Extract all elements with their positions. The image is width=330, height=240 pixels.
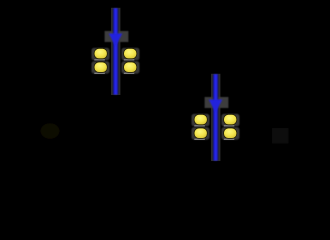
electron pad bottom-left: [92, 61, 110, 73]
wire (current direction down): [113, 8, 118, 94]
wire halo: [211, 74, 220, 161]
electron pad top-left: [192, 114, 210, 126]
electron bottom-left: [194, 128, 207, 138]
electron top-left: [194, 114, 207, 124]
electron bottom-right: [124, 62, 137, 72]
electron bottom-left: [94, 62, 107, 72]
arrowhead: [109, 34, 123, 47]
electron top-right: [224, 114, 237, 124]
electron bottom-right: [224, 128, 237, 138]
faint ghost square right-bottom: [272, 128, 289, 144]
electron pad bottom-right: [222, 127, 240, 139]
pad highlight lines: [94, 59, 134, 74]
arrowhead: [209, 100, 223, 113]
faint ghost blob left-bottom: [41, 123, 60, 139]
electron pad bottom-right: [122, 61, 140, 73]
arrowhead pad: [105, 31, 129, 42]
electron pad top-left: [92, 48, 110, 60]
electron pad bottom-left: [192, 127, 210, 139]
electron top-left: [94, 48, 107, 58]
diagram 1 : wire with current arrow and four electrons: [92, 8, 140, 95]
electron pad top-right: [222, 114, 240, 126]
wire (current direction down): [213, 74, 218, 160]
pad highlight lines: [194, 125, 234, 140]
electron pad top-right: [122, 48, 140, 60]
electron top-right: [124, 48, 137, 58]
diagram 2 : wire with current arrow and four electrons: [192, 74, 240, 161]
arrowhead pad: [205, 97, 229, 108]
wire halo: [111, 8, 120, 95]
